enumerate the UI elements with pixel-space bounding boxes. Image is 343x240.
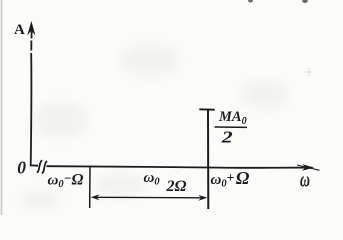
2-Omega dimension arrow line — [93, 196, 205, 199]
svg-text:0: 0 — [17, 157, 26, 177]
horizontal axis omega: segment before break — [30, 164, 38, 166]
tick line at omega0 - Omega — [89, 166, 91, 208]
vertical axis A (line) — [30, 30, 33, 166]
faint smudge right middle — [305, 68, 313, 76]
svg-text:A: A — [14, 22, 25, 38]
left page-edge line — [1, 0, 3, 215]
top edge speck 2 — [302, 0, 308, 3]
svg-text:2Ω: 2Ω — [166, 178, 187, 195]
axis break symbol — [37, 160, 47, 173]
horizontal axis omega: main segment — [47, 166, 313, 168]
vertical axis arrowhead — [27, 21, 35, 36]
spectral line top cap — [199, 108, 214, 110]
svg-text:2: 2 — [221, 129, 233, 147]
fraction bar — [215, 126, 248, 128]
top edge speck 1 — [248, 0, 253, 3]
horizontal axis arrowhead — [302, 164, 314, 171]
right dimension arrowhead — [198, 195, 207, 201]
spectral line at omega0 + Omega — [207, 110, 209, 209]
arrowhead overshoot slash — [297, 165, 320, 170]
svg-text:ω: ω — [300, 168, 310, 192]
paper mottling (very faint) — [18, 44, 289, 210]
left dimension arrowhead — [91, 194, 100, 200]
